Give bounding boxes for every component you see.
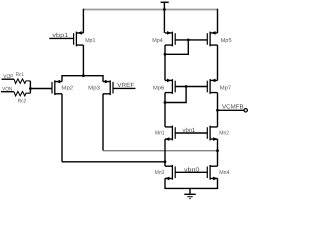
wire gate tie down-left to Mp6 drain xyxy=(165,87,186,103)
junction Mp1 drain on source rail xyxy=(82,74,85,77)
svg-text:Rc1: Rc1 xyxy=(16,72,24,78)
svg-text:Mp6: Mp6 xyxy=(153,85,164,91)
transistor Mp6 (mirrored) xyxy=(165,79,175,94)
junction gate line xyxy=(187,39,190,42)
wire node to Mp2 gate xyxy=(30,88,52,90)
transistor Mp4 (mirrored) xyxy=(165,31,175,46)
wire VON to Rc2 xyxy=(1,91,14,93)
resistor Rc2 xyxy=(14,91,30,96)
transistor Mn4 (NMOS) xyxy=(207,165,218,180)
svg-text:Mp2: Mp2 xyxy=(61,86,73,92)
port VCMFB circle xyxy=(244,109,247,112)
wire Mp1 drain down to diff pair source rail xyxy=(82,45,84,76)
svg-text:VCMFB: VCMFB xyxy=(222,103,244,110)
wire Mn4 source to ground rail xyxy=(217,178,219,188)
wire gate line Mp6-Mp7 xyxy=(175,86,207,88)
svg-text:Mp1: Mp1 xyxy=(85,38,95,44)
VDD supply symbol xyxy=(161,2,169,9)
wire gate line Mp4-Mp5 xyxy=(175,39,207,41)
junction wire B on left column xyxy=(164,160,167,163)
svg-text:Mn2: Mn2 xyxy=(219,131,229,137)
transistor Mn2 (NMOS) xyxy=(207,126,218,141)
junction wire A on right column xyxy=(216,149,219,152)
junction VCMFB tap xyxy=(216,109,219,112)
wire VDD stem down to Mp4 source xyxy=(163,10,165,33)
wire Rc1 to node xyxy=(29,81,31,89)
wire ground rail xyxy=(164,187,218,189)
power rail VDD (gray horizontal) xyxy=(83,9,217,11)
wire Mp6 drain to Mn1 drain xyxy=(164,93,166,127)
wire source rail of Mp2/Mp3 xyxy=(62,76,103,82)
wire vbp1 to Mp1 gate xyxy=(49,37,73,39)
transistor Mn3 (mirrored NMOS) xyxy=(165,165,176,180)
resistor Rc1 xyxy=(14,79,30,84)
wire VCMFB xyxy=(218,109,245,111)
wire VOP to Rc1 xyxy=(2,78,15,80)
transistor Mp3 (mirrored) xyxy=(103,80,113,95)
transistor Mp1 xyxy=(74,31,84,46)
wire Rc2 to node xyxy=(29,89,31,94)
wire VREF to Mp3 gate xyxy=(113,87,136,89)
ground symbol xyxy=(184,188,195,198)
svg-text:Mp3: Mp3 xyxy=(88,86,100,92)
junction gate line Mp6 xyxy=(185,85,188,88)
node vcm junction xyxy=(29,87,32,90)
wire Mp2 drain down xyxy=(61,94,63,162)
wire gate line Mn1-Mn2 vbn1 xyxy=(175,132,207,134)
wire rail left end down to Mp1 source xyxy=(82,9,84,33)
wire gate tie down-left to Mp4 drain xyxy=(165,40,188,54)
wire Mn1 source down to Mn3 drain xyxy=(164,139,166,166)
svg-text:Mn3: Mn3 xyxy=(155,170,165,176)
svg-text:Rc2: Rc2 xyxy=(18,99,26,105)
wire Mp5 drain to Mp7 source xyxy=(217,45,219,80)
wire B Mp2 drain to Mn1 source column xyxy=(62,161,165,163)
junction VDD stem on rail xyxy=(163,8,166,11)
wire rail right end down to Mp5 source xyxy=(217,9,219,33)
wire Mp3 drain down xyxy=(102,94,104,151)
wire gate line Mn3-Mn4 vbn0 xyxy=(175,171,207,173)
wire Mn2 source down to Mn4 drain xyxy=(217,139,219,166)
junction tie on Mp6 drain column xyxy=(164,101,167,104)
junction tie on Mp4 drain column xyxy=(164,53,167,56)
svg-text:Mp5: Mp5 xyxy=(221,38,232,44)
transistor Mn1 (mirrored NMOS) xyxy=(165,126,176,141)
wire Mp4 drain to Mp6 source xyxy=(164,45,166,80)
wire Mn3 source to ground rail xyxy=(164,178,166,188)
svg-text:Mp7: Mp7 xyxy=(220,85,231,91)
wire A Mp3 drain to Mn2 source column xyxy=(103,150,218,152)
wire Mp7 drain down to Mn2 drain xyxy=(217,93,219,127)
svg-text:Mn1: Mn1 xyxy=(155,131,165,137)
svg-text:Mn4: Mn4 xyxy=(219,170,229,176)
transistor Mp5 xyxy=(207,31,217,46)
svg-text:Mp4: Mp4 xyxy=(152,38,162,44)
transistor Mp7 xyxy=(207,79,217,94)
transistor Mp2 xyxy=(52,80,62,95)
